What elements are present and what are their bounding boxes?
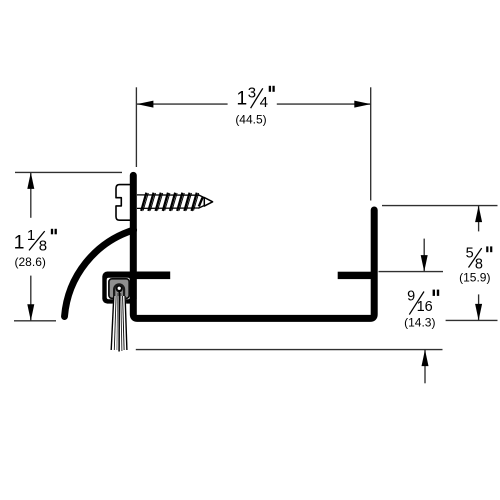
profile main channel (flange, bottom wall, right leg) <box>133 175 374 318</box>
svg-text:1: 1 <box>27 227 35 244</box>
svg-text:16: 16 <box>417 299 433 315</box>
wire 9/16 upper arrow stem <box>423 239 425 272</box>
wire left dimension line upper segment <box>30 172 32 217</box>
right inner lip <box>338 272 375 279</box>
brush pin surround <box>116 285 123 292</box>
wire left dimension line lower segment <box>30 276 32 321</box>
arrow 5/8 up <box>475 206 482 223</box>
svg-text:9: 9 <box>407 289 415 305</box>
wire left lower reference line <box>14 320 56 322</box>
arrow 9/16 down <box>421 255 428 272</box>
arrow 9/16 up <box>422 350 429 367</box>
arrow left-up <box>27 172 34 189</box>
svg-text:1: 1 <box>236 88 247 110</box>
screw tip triangle <box>204 198 212 207</box>
drip curve arm <box>65 230 134 317</box>
label 1 3/4 inch <box>236 84 273 111</box>
svg-text:(15.9): (15.9) <box>459 271 490 285</box>
wire 9/16 lower arrow stem <box>424 350 426 384</box>
screw cone upper edge <box>198 195 212 202</box>
arrow top-right <box>354 101 371 108</box>
svg-text:3: 3 <box>248 84 256 101</box>
brush holder block <box>102 272 136 304</box>
svg-text:8: 8 <box>39 237 47 254</box>
wire 5/8 lower arrow stem <box>478 294 480 320</box>
svg-text:4: 4 <box>260 94 268 111</box>
wire floor reference line <box>136 349 443 351</box>
left inner lip <box>133 272 170 280</box>
arrow 5/8 down <box>475 304 482 321</box>
svg-text:1: 1 <box>14 232 25 254</box>
svg-text:(14.3): (14.3) <box>404 316 435 330</box>
wire 5/8 top reference line <box>382 205 498 207</box>
label 1 1/8 inch <box>14 227 56 254</box>
svg-text:(44.5): (44.5) <box>235 112 266 126</box>
screw shank top edge <box>137 194 199 196</box>
wire top dimension line left segment <box>137 103 228 105</box>
brush bristles <box>111 291 127 352</box>
wire top-left extension line <box>135 87 137 167</box>
screw shank body <box>131 195 199 209</box>
svg-text:(28.6): (28.6) <box>15 255 46 269</box>
brush ferrule <box>109 279 129 299</box>
svg-text:5: 5 <box>466 246 474 262</box>
wire 5/8 bottom reference line <box>446 319 498 321</box>
arrow left-down <box>27 304 34 321</box>
brush bristles backing <box>111 296 128 350</box>
wire 5/8 upper arrow stem <box>478 206 480 232</box>
label 9/16 inch <box>407 289 438 316</box>
screw head <box>116 185 132 221</box>
wire 9/16 top reference line <box>379 271 444 273</box>
brush pin <box>117 286 121 290</box>
screw shank bottom edge <box>137 207 199 209</box>
wire left upper reference line <box>15 171 122 173</box>
screw threads <box>141 193 203 211</box>
screw cone lower edge <box>198 202 212 209</box>
wire top-right extension line <box>370 87 372 200</box>
label 5/8 inch <box>466 246 492 273</box>
brush holder inner white <box>107 278 130 300</box>
wire top dimension line right segment <box>277 103 371 105</box>
brush fold arch <box>113 283 125 298</box>
arrow top-left <box>137 101 154 108</box>
